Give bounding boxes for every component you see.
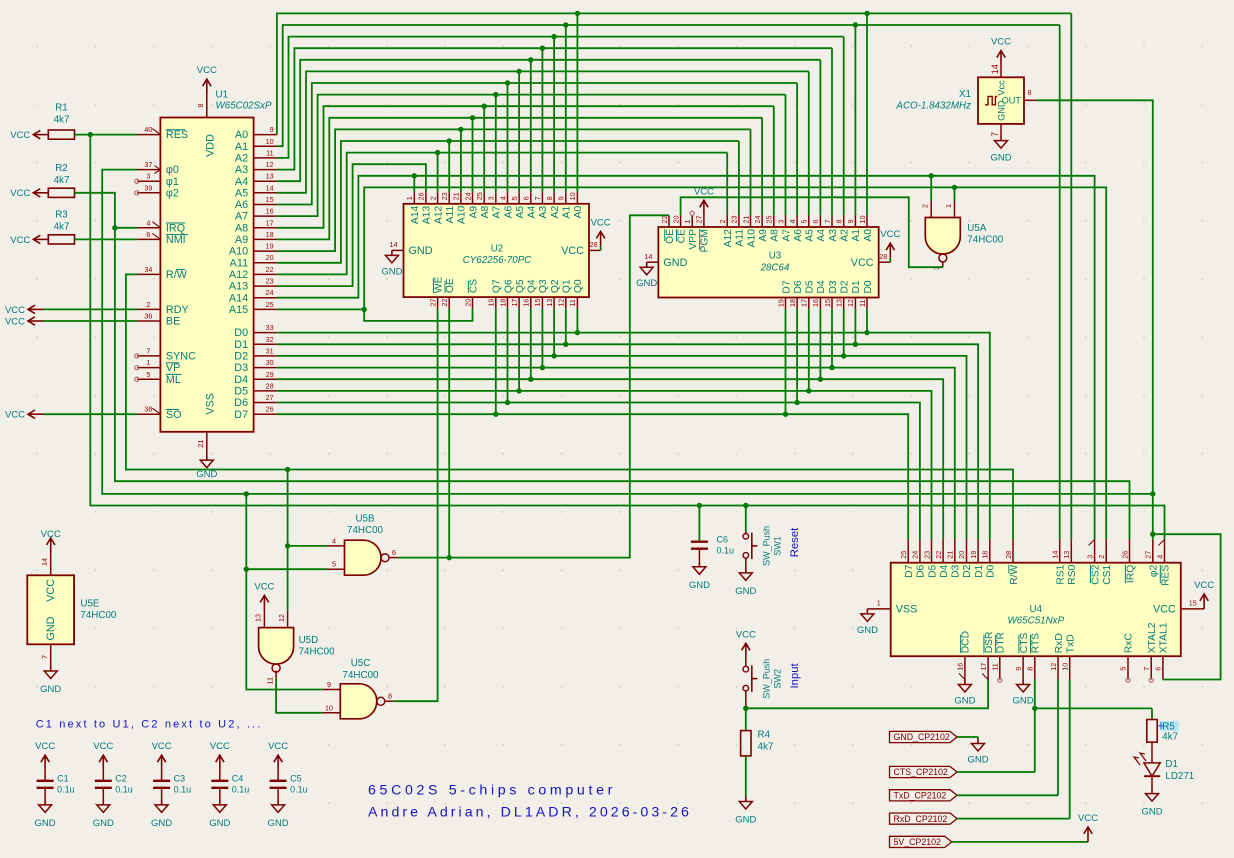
svg-text:5V_CP2102: 5V_CP2102 bbox=[894, 837, 942, 847]
ground at C5 bbox=[268, 800, 289, 829]
junction dots net A12 bbox=[435, 150, 440, 155]
wire net A7 bbox=[277, 95, 786, 217]
svg-text:A4: A4 bbox=[816, 229, 827, 242]
ground at GND_CP2102 bbox=[957, 737, 989, 766]
ground at C1 bbox=[35, 800, 56, 829]
svg-text:A9: A9 bbox=[758, 229, 769, 242]
svg-text:SO: SO bbox=[166, 409, 182, 421]
svg-text:A11: A11 bbox=[735, 229, 746, 247]
svg-text:27: 27 bbox=[266, 393, 274, 402]
svg-text:VSS: VSS bbox=[205, 393, 217, 415]
svg-text:D1: D1 bbox=[1165, 759, 1178, 770]
svg-text:11: 11 bbox=[858, 300, 867, 307]
svg-text:8: 8 bbox=[545, 196, 554, 200]
ACIA U4 W65C51NxP bbox=[867, 539, 1204, 682]
label R2 bbox=[54, 163, 70, 186]
svg-text:A6: A6 bbox=[235, 199, 248, 211]
wire net D4 bbox=[277, 309, 943, 540]
svg-text:20: 20 bbox=[463, 299, 472, 307]
svg-text:D3: D3 bbox=[828, 280, 839, 293]
svg-text:D0: D0 bbox=[986, 564, 997, 577]
svg-text:A6: A6 bbox=[793, 229, 804, 242]
svg-text:R/W: R/W bbox=[166, 269, 188, 281]
junction dots net A15 bbox=[362, 185, 958, 312]
resistor R3 4k7 bbox=[48, 235, 74, 244]
push button SW2 SW_Push Input bbox=[743, 658, 801, 708]
capacitor C6 0.1u bbox=[691, 506, 734, 562]
svg-text:8: 8 bbox=[388, 692, 392, 701]
EEPROM U3 28C64 bbox=[644, 211, 890, 309]
svg-text:D3: D3 bbox=[234, 362, 248, 374]
power flag VCC at U5D pin 13 bbox=[254, 581, 274, 610]
junction dots net D3 bbox=[540, 365, 835, 370]
svg-text:74HC00: 74HC00 bbox=[299, 646, 335, 657]
svg-text:XTAL1: XTAL1 bbox=[1159, 622, 1170, 653]
svg-text:26: 26 bbox=[417, 192, 426, 200]
svg-text:Input: Input bbox=[789, 662, 801, 688]
wire net A13 bbox=[277, 164, 426, 286]
svg-text:ML: ML bbox=[166, 374, 181, 386]
svg-text:VCC: VCC bbox=[35, 741, 55, 752]
junction dots net A14 bbox=[412, 173, 934, 178]
svg-text:39: 39 bbox=[144, 183, 152, 192]
svg-text:VCC: VCC bbox=[1194, 580, 1214, 591]
wire net D1 bbox=[277, 309, 978, 540]
svg-text:GND: GND bbox=[409, 245, 433, 257]
svg-text:ACO-1.8432MHz: ACO-1.8432MHz bbox=[895, 101, 971, 112]
svg-text:5: 5 bbox=[332, 560, 336, 569]
svg-text:VCC: VCC bbox=[254, 581, 274, 592]
svg-text:21: 21 bbox=[741, 216, 750, 224]
svg-text:D7: D7 bbox=[904, 564, 915, 577]
svg-text:VCC: VCC bbox=[10, 235, 30, 246]
junction dots net A8 bbox=[482, 104, 487, 109]
junction dots net D0 bbox=[575, 330, 870, 335]
svg-text:18: 18 bbox=[981, 551, 990, 559]
svg-text:3: 3 bbox=[776, 220, 785, 224]
svg-text:A10: A10 bbox=[457, 206, 468, 225]
resistor R4 4k7 bbox=[741, 708, 774, 796]
svg-text:13: 13 bbox=[835, 299, 844, 307]
svg-text:GND: GND bbox=[381, 266, 402, 277]
wire RDY to VCC bbox=[43, 308, 137, 310]
NAND gate U5A 74HC00 bbox=[921, 201, 1004, 271]
svg-text:RxC: RxC bbox=[1124, 633, 1135, 654]
wire net A14 bbox=[277, 176, 1095, 540]
svg-text:VCC: VCC bbox=[5, 316, 25, 327]
svg-text:VCC: VCC bbox=[268, 741, 288, 752]
svg-text:11: 11 bbox=[266, 148, 273, 157]
svg-text:8: 8 bbox=[1026, 667, 1035, 671]
svg-text:20: 20 bbox=[266, 253, 274, 262]
svg-text:13: 13 bbox=[545, 299, 554, 307]
svg-text:GND: GND bbox=[40, 684, 61, 695]
wire net A12 bbox=[277, 153, 727, 275]
wire net A6 bbox=[277, 83, 797, 215]
svg-text:A12: A12 bbox=[723, 229, 734, 248]
svg-text:0.1u: 0.1u bbox=[174, 785, 192, 795]
svg-text:VCC: VCC bbox=[5, 305, 25, 316]
svg-text:Q6: Q6 bbox=[503, 279, 514, 293]
svg-text:R3: R3 bbox=[55, 209, 68, 220]
svg-text:VCC: VCC bbox=[10, 130, 30, 141]
svg-text:4k7: 4k7 bbox=[1162, 731, 1178, 742]
svg-text:8: 8 bbox=[1028, 88, 1032, 97]
junction dots net A2 bbox=[551, 34, 556, 39]
svg-text:27: 27 bbox=[428, 299, 437, 307]
svg-text:14: 14 bbox=[990, 64, 1000, 74]
svg-text:Q3: Q3 bbox=[538, 279, 549, 293]
svg-text:A0: A0 bbox=[235, 129, 248, 141]
svg-text:W65C02SxP: W65C02SxP bbox=[216, 101, 273, 112]
power flag VCC at X1 pin 14 bbox=[991, 37, 1011, 66]
svg-text:10: 10 bbox=[858, 216, 867, 224]
svg-text:4: 4 bbox=[146, 218, 150, 227]
svg-text:6: 6 bbox=[811, 220, 820, 224]
svg-text:A13: A13 bbox=[229, 281, 248, 293]
svg-text:15: 15 bbox=[533, 299, 542, 307]
junction dots net D1 bbox=[563, 342, 858, 347]
NAND gate U5B 74HC00 bbox=[327, 513, 398, 575]
svg-text:A2: A2 bbox=[840, 229, 851, 242]
junction dots net D4 bbox=[528, 377, 823, 382]
svg-text:74HC00: 74HC00 bbox=[343, 670, 379, 681]
svg-text:GND: GND bbox=[151, 818, 172, 829]
svg-text:4k7: 4k7 bbox=[54, 222, 70, 233]
svg-text:22: 22 bbox=[440, 299, 449, 307]
junction IRQ at R2 bbox=[112, 225, 117, 230]
svg-text:18: 18 bbox=[266, 230, 274, 239]
svg-text:DCD: DCD bbox=[961, 631, 972, 653]
svg-text:VCC: VCC bbox=[736, 629, 756, 640]
svg-text:23: 23 bbox=[266, 277, 274, 286]
svg-text:D5: D5 bbox=[927, 564, 938, 577]
svg-text:A4: A4 bbox=[235, 176, 248, 188]
svg-text:IRQ: IRQ bbox=[1125, 565, 1136, 583]
svg-text:3: 3 bbox=[1085, 555, 1094, 559]
svg-text:21: 21 bbox=[196, 440, 205, 448]
svg-text:R1: R1 bbox=[55, 103, 68, 114]
svg-text:6: 6 bbox=[1154, 667, 1163, 671]
ground at R4 bbox=[735, 797, 756, 826]
svg-text:40: 40 bbox=[144, 125, 152, 134]
svg-text:U5D: U5D bbox=[299, 635, 319, 646]
svg-text:33: 33 bbox=[266, 323, 274, 332]
power flag VCC at U1 VDD pin 8 bbox=[197, 65, 217, 94]
svg-text:5: 5 bbox=[1119, 667, 1128, 671]
svg-text:26: 26 bbox=[266, 405, 274, 414]
power flag VCC at U2 pin 28 bbox=[591, 217, 611, 250]
svg-text:A8: A8 bbox=[480, 206, 491, 219]
power flag VCC at C4 bbox=[210, 741, 230, 770]
svg-text:U2: U2 bbox=[491, 244, 504, 255]
ground at U5E pin 7 bbox=[40, 656, 61, 695]
svg-text:15: 15 bbox=[823, 299, 832, 307]
svg-text:Vcc: Vcc bbox=[997, 80, 1007, 96]
power flag VCC at U4 pin 15 bbox=[1194, 580, 1214, 609]
svg-text:6: 6 bbox=[522, 196, 531, 200]
svg-text:24: 24 bbox=[753, 216, 762, 224]
wire U5D.11 to U5C.10 bbox=[276, 678, 323, 713]
junction dots net A7 bbox=[493, 92, 498, 97]
power flag VCC at 5V_CP2102 bbox=[952, 813, 1098, 842]
svg-text:25: 25 bbox=[266, 300, 274, 309]
junction at U2 OE riser bbox=[447, 555, 452, 560]
svg-text:GND: GND bbox=[735, 586, 756, 597]
ground at X1 pin 7 bbox=[990, 136, 1011, 164]
junction dots net A5 bbox=[516, 69, 521, 74]
wire net WE (U5C.8 to U2.WE) bbox=[394, 309, 438, 701]
svg-text:GND: GND bbox=[1013, 696, 1034, 707]
svg-text:D0: D0 bbox=[863, 280, 874, 293]
svg-text:D1: D1 bbox=[974, 564, 985, 577]
svg-text:14: 14 bbox=[644, 252, 652, 261]
svg-text:7: 7 bbox=[533, 196, 542, 200]
svg-text:VCC: VCC bbox=[1078, 813, 1098, 824]
svg-text:BE: BE bbox=[166, 316, 180, 328]
svg-text:GND: GND bbox=[209, 818, 230, 829]
svg-text:U5A: U5A bbox=[967, 223, 987, 234]
power unit U5E 74HC00 bbox=[27, 558, 117, 659]
svg-text:DTR: DTR bbox=[996, 632, 1007, 653]
svg-text:RES: RES bbox=[166, 129, 188, 141]
svg-text:VPP: VPP bbox=[688, 229, 699, 250]
svg-text:VP: VP bbox=[166, 362, 180, 374]
svg-text:3: 3 bbox=[146, 172, 150, 181]
svg-text:GND: GND bbox=[967, 755, 988, 766]
junction at SW2/R4 bbox=[743, 706, 748, 711]
wire net A10 bbox=[277, 129, 751, 251]
svg-text:C4: C4 bbox=[232, 774, 244, 784]
svg-text:20: 20 bbox=[671, 216, 680, 224]
power flag VCC at R3 bbox=[10, 235, 48, 246]
svg-text:Andre Adrian, DL1ADR, 2026-03-: Andre Adrian, DL1ADR, 2026-03-26 bbox=[368, 805, 692, 821]
svg-text:74HC00: 74HC00 bbox=[80, 610, 116, 621]
svg-text:GND: GND bbox=[735, 815, 756, 826]
wire net A2 bbox=[277, 37, 844, 216]
svg-text:16: 16 bbox=[811, 299, 820, 307]
svg-text:21: 21 bbox=[452, 192, 461, 200]
svg-text:37: 37 bbox=[144, 160, 152, 169]
svg-text:A7: A7 bbox=[492, 206, 503, 219]
svg-text:4: 4 bbox=[788, 220, 797, 224]
svg-text:LD271: LD271 bbox=[1165, 771, 1194, 782]
svg-text:SYNC: SYNC bbox=[166, 351, 196, 363]
svg-text:VCC: VCC bbox=[41, 529, 61, 540]
svg-text:C1 next to U1, C2 next to U2,: C1 next to U1, C2 next to U2, ... bbox=[36, 719, 263, 731]
svg-text:D5: D5 bbox=[805, 280, 816, 293]
svg-text:R4: R4 bbox=[758, 730, 771, 741]
svg-text:10: 10 bbox=[1061, 663, 1070, 671]
svg-text:A0: A0 bbox=[863, 229, 874, 242]
svg-text:1: 1 bbox=[405, 196, 414, 200]
svg-text:27: 27 bbox=[695, 216, 704, 224]
junction at RTS branch to R5 bbox=[1032, 706, 1037, 711]
junction dots net A11 bbox=[447, 138, 452, 143]
svg-text:28: 28 bbox=[590, 240, 598, 249]
svg-text:OE: OE bbox=[665, 229, 676, 244]
svg-text:5: 5 bbox=[146, 370, 150, 379]
junction dots net D7 bbox=[493, 412, 788, 417]
junction dots net A4 bbox=[528, 57, 533, 62]
svg-text:2: 2 bbox=[146, 300, 150, 309]
svg-text:31: 31 bbox=[266, 346, 274, 355]
capacitor C3 0.1u bbox=[153, 770, 191, 800]
svg-text:VCC: VCC bbox=[10, 188, 30, 199]
svg-text:9: 9 bbox=[1014, 667, 1023, 671]
svg-text:GND: GND bbox=[857, 625, 878, 636]
svg-text:A3: A3 bbox=[235, 164, 248, 176]
svg-text:15: 15 bbox=[266, 195, 274, 204]
svg-text:VCC: VCC bbox=[991, 37, 1011, 48]
ground at C6 bbox=[689, 562, 710, 591]
svg-text:24: 24 bbox=[266, 288, 274, 297]
junction at U5B pin 5 bbox=[244, 567, 249, 572]
wire net D2 bbox=[277, 309, 967, 540]
wire net RESET bbox=[75, 135, 1165, 540]
wire net A4 bbox=[277, 60, 821, 216]
svg-text:36: 36 bbox=[144, 312, 152, 321]
svg-text:RES: RES bbox=[1160, 565, 1171, 586]
svg-text:RxD: RxD bbox=[1054, 633, 1065, 653]
junction dots net D6 bbox=[505, 400, 800, 405]
svg-text:GND: GND bbox=[93, 818, 114, 829]
svg-text:φ1: φ1 bbox=[166, 176, 179, 188]
junction dots net A0 bbox=[575, 11, 870, 16]
svg-text:C3: C3 bbox=[174, 774, 186, 784]
svg-text:3: 3 bbox=[487, 196, 496, 200]
svg-text:X1: X1 bbox=[959, 89, 971, 100]
oscillator X1 ACO-1.8432MHz bbox=[895, 64, 1035, 137]
wire net OE (U5B.6 to U2.OE and U3.OE) bbox=[398, 215, 669, 557]
power flag VCC at U5E pin 14 bbox=[41, 529, 61, 564]
svg-text:A6: A6 bbox=[503, 206, 514, 219]
svg-text:A15: A15 bbox=[229, 304, 248, 316]
svg-text:D6: D6 bbox=[234, 397, 248, 409]
svg-text:D0: D0 bbox=[234, 327, 248, 339]
svg-text:DSR: DSR bbox=[984, 632, 995, 654]
svg-text:VCC: VCC bbox=[880, 229, 900, 240]
svg-text:XTAL2: XTAL2 bbox=[1147, 622, 1158, 653]
wire net D3 bbox=[277, 309, 955, 540]
svg-text:A12: A12 bbox=[433, 206, 444, 225]
svg-text:D1: D1 bbox=[851, 280, 862, 293]
ground at C2 bbox=[93, 800, 114, 829]
svg-text:R/W: R/W bbox=[1009, 564, 1020, 584]
svg-text:28: 28 bbox=[1004, 551, 1013, 559]
svg-text:C6: C6 bbox=[717, 534, 729, 544]
svg-text:GND: GND bbox=[954, 696, 975, 707]
junction dots net A10 bbox=[458, 127, 463, 132]
svg-text:Q0: Q0 bbox=[573, 279, 584, 293]
svg-text:A4: A4 bbox=[527, 206, 538, 219]
svg-text:24: 24 bbox=[911, 551, 920, 559]
svg-text:CS: CS bbox=[468, 279, 479, 293]
svg-text:φ0: φ0 bbox=[166, 164, 179, 176]
svg-text:11: 11 bbox=[568, 299, 577, 306]
svg-text:12: 12 bbox=[846, 299, 855, 307]
svg-text:32: 32 bbox=[266, 335, 274, 344]
svg-text:A10: A10 bbox=[746, 229, 757, 248]
wire net A5 bbox=[277, 71, 809, 215]
svg-text:9: 9 bbox=[270, 125, 274, 134]
svg-text:24: 24 bbox=[463, 192, 472, 200]
svg-text:0.1u: 0.1u bbox=[717, 546, 735, 556]
svg-text:A14: A14 bbox=[410, 206, 421, 225]
svg-text:D5: D5 bbox=[234, 386, 248, 398]
svg-text:CY62256-70PC: CY62256-70PC bbox=[463, 255, 533, 266]
svg-text:A10: A10 bbox=[229, 246, 248, 258]
svg-text:11: 11 bbox=[991, 663, 1000, 670]
svg-text:74HC00: 74HC00 bbox=[347, 525, 383, 536]
svg-text:C1: C1 bbox=[57, 774, 69, 784]
svg-text:GND: GND bbox=[663, 257, 687, 269]
power flag VCC at U3 pin 28 bbox=[880, 229, 900, 262]
svg-text:8: 8 bbox=[835, 220, 844, 224]
svg-text:U3: U3 bbox=[769, 251, 782, 262]
svg-text:SW_Push: SW_Push bbox=[762, 659, 772, 699]
svg-text:13: 13 bbox=[254, 614, 263, 622]
svg-text:SW1: SW1 bbox=[772, 536, 782, 556]
wire net A8 bbox=[277, 106, 774, 228]
svg-text:7: 7 bbox=[1142, 667, 1151, 671]
title text bbox=[368, 783, 692, 821]
svg-text:A13: A13 bbox=[422, 206, 433, 225]
wire net RTS (U4.RTS to CTS_CP2102 and R5/LED) bbox=[957, 680, 1152, 773]
svg-text:23: 23 bbox=[730, 216, 739, 224]
svg-text:65C02S 5-chips computer: 65C02S 5-chips computer bbox=[368, 783, 616, 799]
svg-text:10: 10 bbox=[325, 703, 333, 712]
svg-text:A1: A1 bbox=[851, 229, 862, 242]
svg-text:12: 12 bbox=[277, 614, 286, 622]
svg-text:D2: D2 bbox=[840, 280, 851, 293]
svg-text:A0: A0 bbox=[573, 206, 584, 219]
wire net D7 bbox=[277, 309, 908, 540]
svg-text:4k7: 4k7 bbox=[758, 742, 774, 753]
svg-text:GND: GND bbox=[196, 469, 217, 480]
wire net ROMCE (U5A.3 to U3.CE) bbox=[681, 197, 943, 267]
svg-text:Q1: Q1 bbox=[562, 279, 573, 293]
ground at U1 VSS pin 21 bbox=[196, 455, 217, 480]
svg-text:74HC00: 74HC00 bbox=[967, 235, 1003, 246]
power flag VCC at U1 BE pin 36 bbox=[5, 316, 43, 327]
ground at U4 CTS pin 9 bbox=[1013, 680, 1034, 707]
svg-text:CS1: CS1 bbox=[1102, 564, 1113, 584]
svg-text:RDY: RDY bbox=[166, 304, 189, 316]
svg-text:GND: GND bbox=[1141, 807, 1162, 818]
junction dots net D2 bbox=[551, 353, 846, 358]
svg-text:D3: D3 bbox=[951, 564, 962, 577]
junction dots net RESET bbox=[88, 132, 749, 508]
wire net A1 bbox=[277, 25, 1060, 539]
svg-text:A9: A9 bbox=[235, 234, 248, 246]
svg-text:A7: A7 bbox=[781, 229, 792, 242]
power flag VCC at U1 SO pin 38 bbox=[5, 410, 43, 421]
resistor R2 4k7 bbox=[48, 188, 74, 197]
svg-text:19: 19 bbox=[969, 551, 978, 559]
junction dots net CLK bbox=[244, 491, 1156, 537]
svg-text:A5: A5 bbox=[805, 229, 816, 242]
svg-text:14: 14 bbox=[266, 183, 274, 192]
label R1 bbox=[54, 103, 70, 126]
svg-text:26: 26 bbox=[1120, 551, 1129, 559]
wire R/W branch to U5B.4 and U5D.12 bbox=[288, 470, 327, 611]
svg-text:GND: GND bbox=[990, 153, 1011, 164]
svg-text:D4: D4 bbox=[939, 564, 950, 577]
svg-text:18: 18 bbox=[788, 299, 797, 307]
svg-text:Q4: Q4 bbox=[527, 279, 538, 293]
svg-text:D2: D2 bbox=[234, 351, 248, 363]
